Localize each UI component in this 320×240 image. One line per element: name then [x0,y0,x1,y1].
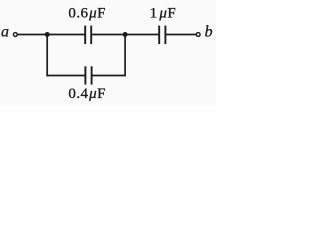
wire a to node 1 [18,34,85,36]
svg-text:a: a [1,24,9,41]
terminal b [196,33,200,37]
capacitor C1 0.6uF left plate [84,26,86,44]
wire node 1 down [46,35,48,77]
capacitor C1 0.6uF right plate [90,26,92,44]
wire bottom left horizontal [46,75,84,77]
wire node 2 to C3 [125,34,159,36]
node 1 junction [45,32,50,37]
node 2 junction [123,32,128,37]
wire up to node 2 [124,35,126,77]
wire C3 to terminal b [166,34,196,36]
capacitor C3 1uF left plate [158,26,160,44]
terminal a [13,33,17,37]
wire bottom right horizontal [92,75,126,77]
svg-text:1μF: 1μF [150,5,177,21]
capacitor C3 1uF right plate [164,26,166,44]
svg-text:b: b [205,24,213,41]
svg-text:0.4μF: 0.4μF [68,86,105,102]
wire C1 to node 2 [92,34,125,36]
svg-text:0.6μF: 0.6μF [68,5,105,21]
capacitor C2 0.4uF right plate [91,66,93,84]
capacitor C2 0.4uF left plate [84,66,86,84]
